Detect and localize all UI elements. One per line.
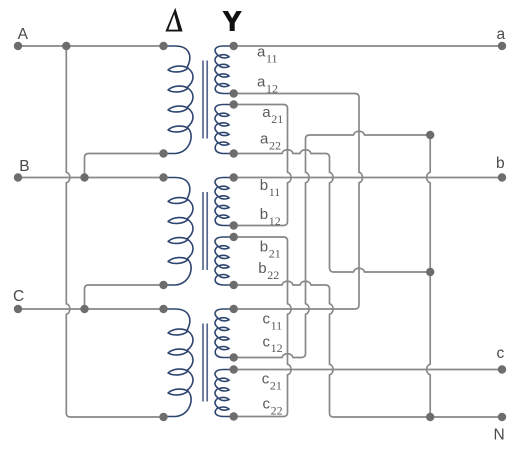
wire: b11 to output b (bus) — [234, 177, 502, 179]
node junction C-delta — [80, 305, 88, 313]
node terminal c — [498, 365, 506, 373]
transformer T1 secondary winding 2 coil — [215, 105, 234, 154]
transformer T3 core — [203, 324, 207, 402]
wire: delta link A to T3 primary bottom (vertical with hops over B,C) — [66, 46, 163, 417]
transformer T2 primary coil (delta side) — [164, 178, 194, 286]
node T2 primary bottom pin — [159, 281, 167, 289]
wire: a12 to c11 (channel x=358.5) — [234, 94, 363, 310]
wire: a21 to b12 (channel x=288.5 upper) — [234, 105, 291, 226]
transformer T2 core — [203, 192, 207, 270]
node terminal C — [14, 305, 22, 313]
node pin b21 — [230, 233, 238, 241]
node node rail mid junction — [426, 268, 434, 276]
label delta symbol — [165, 8, 182, 32]
node terminal B — [14, 173, 22, 181]
node pin a11 — [230, 42, 238, 50]
transformer T1 core — [203, 61, 207, 139]
node pin a12 — [230, 89, 238, 97]
wire: phase B input line — [18, 177, 164, 179]
node node rail top — [426, 131, 434, 139]
node terminal a — [498, 42, 506, 50]
wire: a11 to output a — [234, 45, 502, 47]
node pin c12 — [230, 353, 238, 361]
svg-text:B: B — [19, 158, 29, 175]
transformer T2 secondary winding 2 coil — [215, 237, 234, 285]
wire: phase C input line — [18, 308, 164, 310]
svg-text:C: C — [13, 288, 24, 305]
wire: delta link C to T2 primary bottom — [85, 285, 164, 309]
svg-text:Y: Y — [223, 6, 241, 37]
node pin a21 — [230, 100, 238, 108]
node terminal N — [498, 413, 506, 421]
transformer T1 secondary winding 1 coil — [215, 46, 234, 94]
wire: a22 to neutral rail (channel x=330 upper, then y=272) — [234, 150, 431, 272]
node T3 primary top pin — [159, 305, 167, 313]
svg-text:b: b — [496, 155, 505, 172]
transformer T3 secondary winding 2 coil — [215, 370, 234, 417]
node pin c22 — [230, 412, 238, 420]
node T3 primary bottom pin — [159, 413, 167, 421]
wire: delta link B to T1 primary bottom — [85, 154, 164, 178]
node T1 primary top pin — [159, 42, 167, 50]
svg-text:A: A — [18, 26, 29, 43]
wire: phase A input line — [18, 45, 164, 47]
svg-text:c: c — [497, 345, 505, 362]
node terminal A — [14, 42, 22, 50]
node pin b11 — [230, 173, 238, 181]
transformer T1 primary coil (delta side) — [164, 46, 194, 154]
transformer T3 primary coil (delta side) — [164, 309, 194, 417]
wire: b21 to c22 (channel x=288.5 lower) — [234, 237, 291, 417]
node pin c11 — [230, 305, 238, 313]
wire: neutral rail (x=430.5) from y=135 to N line — [427, 135, 431, 417]
node pin c21 — [230, 365, 238, 373]
node junction A-delta — [62, 42, 70, 50]
svg-text:a: a — [497, 26, 506, 43]
wire: c21 to output c (bus) — [234, 369, 502, 371]
node terminal b — [498, 173, 506, 181]
node T1 primary bottom pin — [159, 149, 167, 157]
node pin b22 — [230, 281, 238, 289]
wire: c12 to neutral rail top (channel x=306.5, then y=135) — [234, 131, 431, 357]
node pin a22 — [230, 149, 238, 157]
svg-text:N: N — [494, 427, 505, 444]
node junction B-delta — [80, 173, 88, 181]
node node rail N junction — [426, 413, 434, 421]
node T2 primary top pin — [159, 173, 167, 181]
wire: b22 to neutral line N (channel x=330 lower) — [234, 281, 502, 417]
node pin b12 — [230, 221, 238, 229]
transformer T2 secondary winding 1 coil — [215, 178, 234, 226]
transformer T3 secondary winding 1 coil — [215, 309, 234, 358]
